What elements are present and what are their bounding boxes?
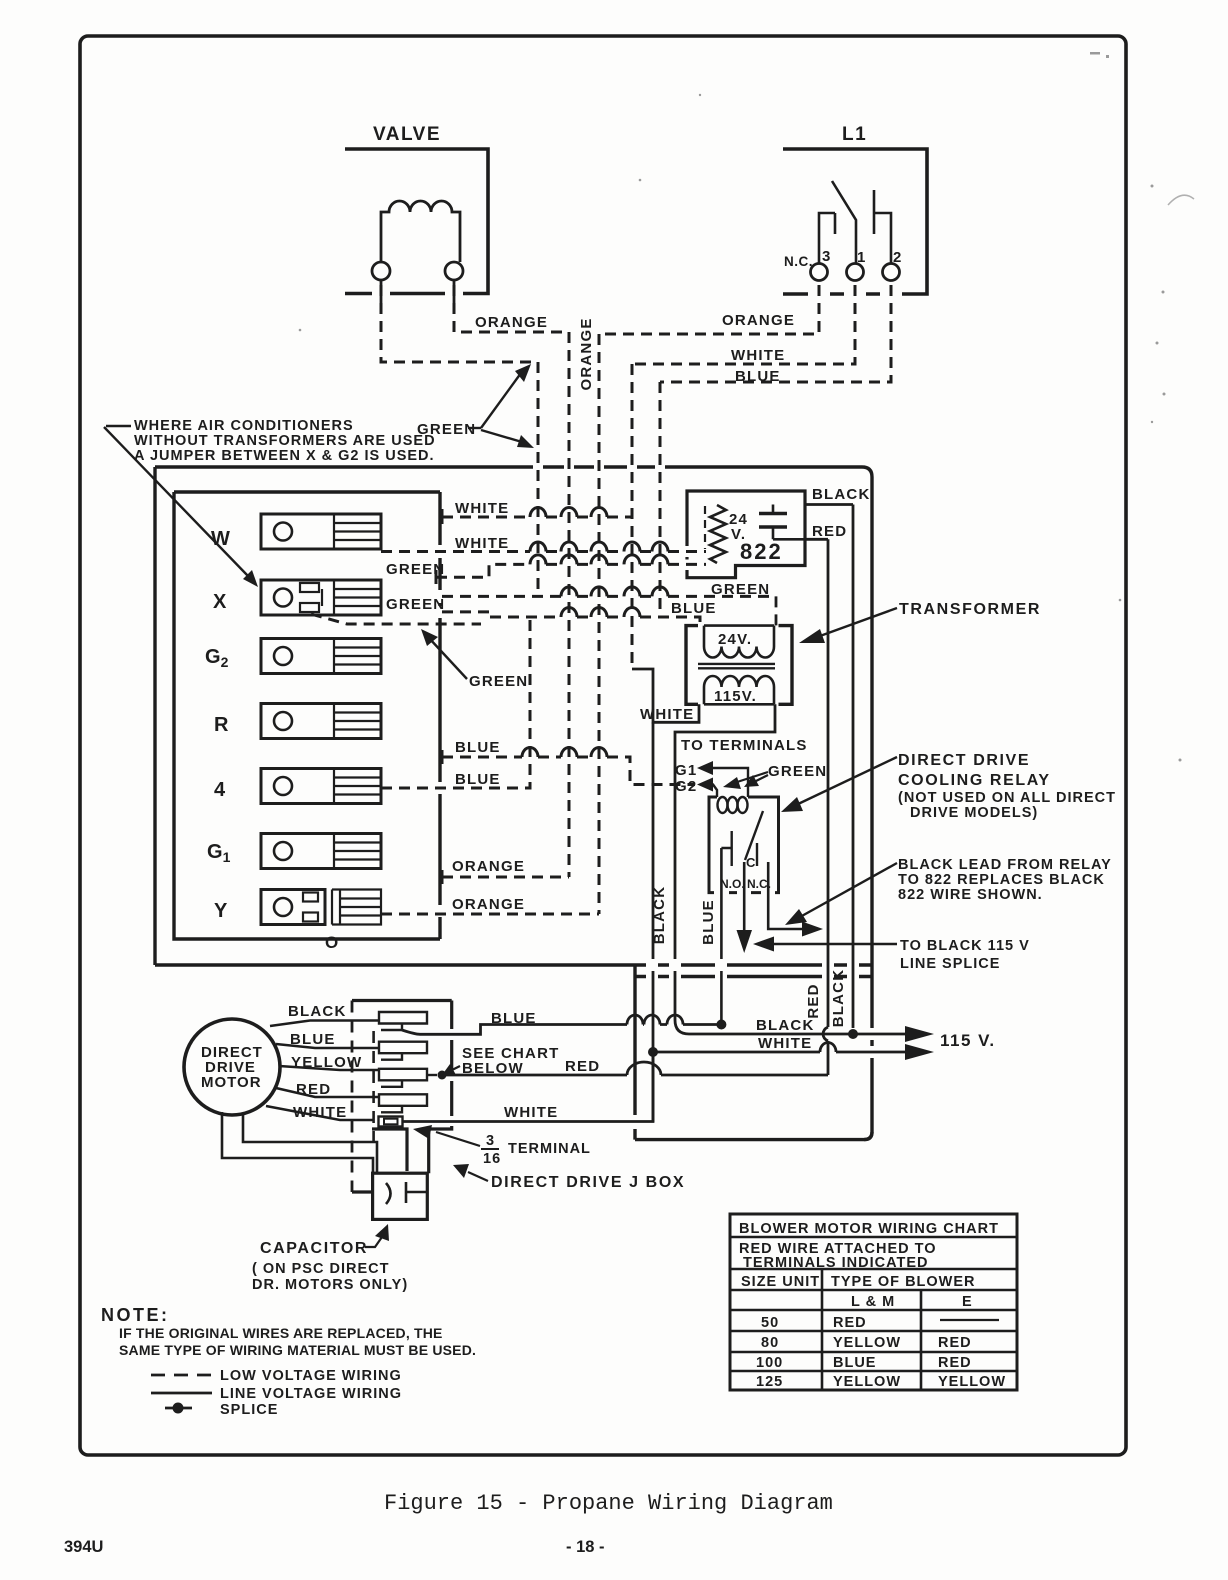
wire red motor line (446, 1074, 828, 1077)
table dash in E column row 50 (940, 1319, 999, 1321)
svg-text:G2: G2 (205, 646, 229, 670)
822 capacitor frame (773, 538, 805, 541)
wire valve right orange down (454, 285, 569, 332)
svg-text:BLACK LEAD FROM RELAY: BLACK LEAD FROM RELAY (898, 857, 1112, 873)
leader j box (468, 1172, 488, 1181)
wire orange vertical v1 (568, 332, 571, 877)
wire blue row1 (442, 757, 695, 785)
transformer green drop (775, 596, 778, 625)
hops X lower row (561, 608, 640, 617)
label DIRECT DRIVE COOLING RELAY (898, 752, 1116, 821)
wire blue vertical (659, 382, 662, 617)
jbox bottom stub (352, 1190, 373, 1193)
motor lead red (276, 1088, 379, 1097)
G1 lead (712, 768, 748, 797)
svg-text:394U: 394U (64, 1538, 103, 1556)
L1 fixed post right (873, 190, 876, 234)
valve coil L1 winding (381, 201, 460, 262)
jbox terminal 3 (379, 1069, 427, 1087)
legend low voltage sample (151, 1374, 212, 1377)
822 capacitor plates (759, 514, 787, 528)
svg-text:BLUE: BLUE (833, 1355, 876, 1371)
leader cooling relay (796, 757, 897, 805)
leader capacitor (365, 1237, 382, 1247)
svg-text:WHITE: WHITE (731, 347, 785, 364)
relay C lead down to arrow (743, 862, 746, 930)
wire blue from jbox (402, 1025, 721, 1035)
822 coil zigzag (710, 505, 726, 563)
terminal G2 (261, 639, 381, 674)
terminal G1 (261, 834, 381, 869)
svg-text:WHITE: WHITE (504, 1104, 558, 1121)
relay NC lead right arrow (768, 862, 806, 929)
svg-text:WHITE: WHITE (455, 500, 509, 517)
leader see chart (450, 1066, 460, 1071)
svg-text:NOTE:: NOTE: (101, 1305, 170, 1325)
table column lines (822, 1269, 921, 1390)
wire blue row2 (381, 617, 530, 788)
transformer left bracket (686, 626, 698, 705)
wire orange row2 (381, 913, 599, 916)
svg-text:ORANGE: ORANGE (722, 312, 795, 329)
svg-text:(NOT USED ON ALL DIRECT: (NOT USED ON ALL DIRECT (898, 790, 1116, 806)
svg-text:ORANGE: ORANGE (578, 317, 595, 390)
L1 switch blade (832, 181, 856, 263)
valve box (345, 149, 488, 294)
svg-text:822 WIRE SHOWN.: 822 WIRE SHOWN. (898, 887, 1043, 903)
svg-text:TERMINALS INDICATED: TERMINALS INDICATED (743, 1255, 928, 1271)
wire X lower row jog (442, 612, 700, 626)
svg-text:DRIVE MODELS): DRIVE MODELS) (910, 805, 1038, 821)
svg-text:115V.: 115V. (714, 688, 757, 705)
wire valve left green down (381, 285, 538, 362)
leader arrow to upper green corner (481, 373, 521, 428)
splice white (648, 1047, 658, 1057)
svg-text:BLUE: BLUE (700, 899, 717, 945)
svg-text:( ON PSC DIRECT: ( ON PSC DIRECT (252, 1261, 389, 1277)
svg-text:BELOW: BELOW (462, 1060, 524, 1077)
svg-text:N.O.: N.O. (720, 877, 745, 891)
jbox left edge dashed (351, 1001, 354, 1193)
transformer 115V winding (704, 676, 774, 704)
svg-text:TO 822 REPLACES BLACK: TO 822 REPLACES BLACK (898, 872, 1105, 888)
svg-text:COOLING RELAY: COOLING RELAY (898, 772, 1051, 789)
wire white row1 tick (441, 509, 444, 524)
svg-text:VALVE: VALVE (373, 124, 441, 145)
svg-text:125: 125 (756, 1374, 783, 1390)
white arrow 115V (905, 1044, 934, 1060)
svg-text:WHITE: WHITE (640, 706, 694, 723)
svg-text:16: 16 (483, 1151, 501, 1167)
label SEE CHART BELOW (462, 1045, 559, 1077)
L1 box (783, 149, 927, 294)
svg-text:24V.: 24V. (718, 631, 752, 648)
822 coil dashed armature (704, 506, 706, 549)
valve terminal circle right (445, 262, 463, 280)
wire green row1 with jog (436, 564, 706, 577)
svg-text:C: C (746, 855, 756, 870)
svg-text:WITHOUT TRANSFORMERS ARE USED: WITHOUT TRANSFORMERS ARE USED (134, 433, 436, 449)
terminal X (261, 580, 381, 615)
hops green row1 (530, 555, 668, 565)
motor label (201, 1044, 263, 1091)
motor lead yellow (279, 1066, 379, 1070)
svg-text:E: E (962, 1294, 973, 1310)
svg-text:TO TERMINALS: TO TERMINALS (681, 737, 808, 754)
table outer (730, 1214, 1017, 1390)
black arrow 115V (905, 1026, 934, 1042)
hop red over black line (823, 1027, 828, 1041)
svg-text:TERMINAL: TERMINAL (508, 1141, 591, 1157)
wire white to transformer (632, 669, 699, 722)
svg-text:Figure 15 - Propane Wiring Dia: Figure 15 - Propane Wiring Diagram (384, 1491, 833, 1516)
svg-text:RED: RED (296, 1081, 331, 1098)
L1 terminal 2 riser (874, 213, 891, 263)
wire white row1 (442, 516, 632, 519)
svg-text:BLACK: BLACK (756, 1017, 815, 1034)
svg-text:SAME TYPE OF WIRING MATERIAL M: SAME TYPE OF WIRING MATERIAL MUST BE USE… (119, 1342, 476, 1358)
svg-text:Y: Y (214, 900, 228, 922)
wire blue row1 tick (441, 750, 444, 764)
transformer 24V winding (704, 626, 774, 658)
svg-text:RED: RED (938, 1335, 972, 1351)
svg-text:BLACK: BLACK (288, 1003, 347, 1020)
svg-text:G1: G1 (675, 762, 697, 779)
svg-text:RED: RED (812, 523, 847, 540)
see chart splice dot (438, 1071, 447, 1080)
terminal Y (261, 890, 381, 925)
label 3/16 TERMINAL (483, 1133, 591, 1167)
wire L1 terminal2 blue (660, 285, 891, 382)
svg-text:80: 80 (761, 1335, 779, 1351)
wire L1 terminal1 white (632, 285, 855, 364)
svg-text:GREEN: GREEN (386, 561, 445, 578)
svg-text:BLUE: BLUE (671, 600, 717, 617)
label ON PSC DIRECT (252, 1261, 408, 1293)
motor lead blue (276, 1044, 378, 1048)
terminal R (261, 704, 381, 739)
relay box (709, 797, 779, 893)
legend line voltage sample (151, 1392, 212, 1395)
hop red over white vert (627, 1062, 661, 1075)
valve stem left (380, 280, 383, 305)
capacitor box (373, 1173, 428, 1219)
leader green pointer (429, 638, 467, 679)
svg-text:GREEN: GREEN (386, 596, 445, 613)
leader transformer (820, 608, 897, 636)
wire white row2 (381, 550, 706, 553)
svg-text:W: W (211, 528, 230, 550)
wire orange vertical v2 (598, 334, 601, 914)
svg-text:1: 1 (857, 249, 867, 266)
legend splice sample (165, 1407, 192, 1410)
svg-text:MOTOR: MOTOR (201, 1074, 262, 1091)
svg-text:WHERE AIR CONDITIONERS: WHERE AIR CONDITIONERS (134, 418, 354, 434)
L1 terminal 2 circle (883, 264, 900, 281)
svg-text:BLUE: BLUE (290, 1031, 336, 1048)
jbox terminal 1 (379, 1012, 427, 1030)
wire orange row1 tick (441, 870, 444, 884)
box A top edge (155, 467, 872, 477)
splice blue-relay (716, 1020, 726, 1030)
wire X bottom diagonal green (311, 614, 481, 624)
leader dash after GREEN (468, 427, 481, 429)
svg-text:ORANGE: ORANGE (452, 858, 525, 875)
wire L1 terminal3 orange (599, 285, 819, 334)
svg-text:3: 3 (822, 248, 832, 265)
wire green row1 tick (435, 570, 438, 584)
jbox top edge (352, 999, 452, 1002)
822 capacitor stems (772, 505, 775, 540)
svg-text:RED: RED (565, 1058, 600, 1075)
wire white 115V line (653, 1051, 905, 1054)
svg-text:BLUE: BLUE (455, 771, 501, 788)
svg-text:BLACK: BLACK (812, 486, 871, 503)
svg-text:BLACK: BLACK (651, 886, 668, 945)
svg-text:X: X (213, 591, 227, 613)
leader arrow to lower green wire (481, 430, 522, 442)
valve terminal circle left (372, 262, 390, 280)
leader dash before WHERE (106, 425, 131, 427)
capacitor plates (386, 1182, 427, 1204)
leader 3/16 terminal (436, 1132, 480, 1146)
box A bottom edge (155, 963, 872, 966)
svg-text:- 18 -: - 18 - (566, 1538, 605, 1556)
svg-text:CAPACITOR: CAPACITOR (260, 1240, 368, 1257)
motor circle (184, 1019, 280, 1115)
svg-text:BLUE: BLUE (491, 1010, 537, 1027)
svg-text:RED: RED (833, 1315, 867, 1331)
svg-text:L1: L1 (842, 124, 867, 145)
hops blue wire (627, 1015, 683, 1024)
svg-text:GREEN: GREEN (768, 763, 827, 780)
lower box top edge (635, 975, 872, 978)
svg-text:BLACK: BLACK (830, 969, 847, 1028)
leader black lead (800, 863, 897, 917)
jbox inner dashed (372, 1031, 375, 1151)
svg-text:LINE VOLTAGE WIRING: LINE VOLTAGE WIRING (220, 1386, 402, 1402)
svg-text:ORANGE: ORANGE (452, 896, 525, 913)
relay NO lead blue down (721, 848, 731, 1025)
box A right edge (864, 477, 872, 1140)
label BLACK LEAD FROM RELAY (898, 857, 1112, 903)
svg-text:IF THE ORIGINAL WIRES ARE REPL: IF THE ORIGINAL WIRES ARE REPLACED, THE (119, 1325, 443, 1341)
green leaders to coil (734, 772, 768, 783)
motor bottom lead B (243, 1113, 377, 1173)
wire black from 822 (805, 505, 853, 1029)
svg-text:WHITE: WHITE (758, 1035, 812, 1052)
svg-text:2: 2 (893, 249, 903, 266)
wire red from 822 (805, 539, 828, 1075)
svg-text:L & M: L & M (851, 1294, 895, 1310)
svg-text:TRANSFORMER: TRANSFORMER (899, 601, 1041, 618)
wire green row2 to transformer (442, 595, 776, 598)
transformer right bracket (779, 626, 793, 705)
svg-text:50: 50 (761, 1315, 779, 1331)
jbox right edge (372, 1001, 452, 1174)
transformer core (698, 664, 775, 668)
svg-text:BLOWER MOTOR WIRING CHART: BLOWER MOTOR WIRING CHART (739, 1221, 999, 1237)
svg-text:3: 3 (486, 1133, 495, 1149)
svg-text:LINE SPLICE: LINE SPLICE (900, 956, 1000, 972)
terminal W (261, 514, 381, 549)
jbox terminal 5 (379, 1117, 403, 1127)
L1 terminal 3 riser (819, 213, 835, 263)
svg-text:G1: G1 (207, 841, 231, 865)
hops blue row1 (522, 748, 607, 758)
fraction bar (481, 1148, 499, 1150)
svg-text:N.C.: N.C. (784, 254, 813, 269)
822 outline (687, 491, 805, 578)
L1 terminal 3 circle (811, 264, 828, 281)
wire green vertical from valve (537, 362, 540, 596)
svg-text:RED: RED (938, 1355, 972, 1371)
svg-text:DR. MOTORS ONLY): DR. MOTORS ONLY) (252, 1277, 408, 1293)
note WHERE AIR CONDITIONERS (134, 418, 436, 464)
leader line splice (770, 943, 897, 945)
wire black from transformer (675, 704, 775, 1020)
svg-text:BLUE: BLUE (735, 368, 781, 385)
relay blade (745, 811, 763, 860)
hops white row1 (530, 508, 607, 517)
terminal strip box (174, 492, 440, 939)
scan specks (299, 52, 1194, 762)
svg-text:O: O (325, 933, 338, 952)
wire orange row1 (442, 876, 569, 879)
motor lead white (266, 1106, 374, 1120)
svg-text:WHITE: WHITE (293, 1104, 347, 1121)
jbox terminal 4 (379, 1094, 427, 1112)
hops white row2 (530, 542, 668, 552)
jbox terminal 2 (379, 1042, 427, 1060)
jbox terminal 3 arm (427, 1074, 437, 1076)
hop white over red (820, 1043, 836, 1053)
wire white solid down (652, 722, 655, 1122)
lower box bottom edge (635, 1132, 872, 1140)
svg-text:SIZE UNIT: SIZE UNIT (741, 1274, 820, 1290)
svg-text:TYPE OF BLOWER: TYPE OF BLOWER (831, 1274, 976, 1290)
terminal 4 (261, 769, 381, 804)
wire black 115V line (689, 1033, 905, 1036)
svg-text:GREEN: GREEN (711, 581, 770, 598)
svg-text:822: 822 (740, 539, 783, 564)
table row lines (730, 1237, 1017, 1371)
label TO BLACK 115 V LINE SPLICE (900, 938, 1030, 972)
motor bottom lead A (222, 1112, 373, 1173)
svg-text:G2: G2 (675, 778, 697, 795)
motor lead black (270, 1021, 379, 1027)
svg-text:115 V.: 115 V. (940, 1031, 996, 1050)
relay C post (756, 843, 758, 866)
wire white motor line (403, 1052, 654, 1122)
svg-text:R: R (214, 714, 229, 736)
svg-text:LOW VOLTAGE WIRING: LOW VOLTAGE WIRING (220, 1368, 402, 1384)
relay NO post (731, 831, 733, 866)
svg-text:BLUE: BLUE (455, 739, 501, 756)
svg-text:A JUMPER BETWEEN X & G2 IS USE: A JUMPER BETWEEN X & G2 IS USED. (134, 448, 435, 464)
svg-text:RED: RED (805, 983, 822, 1018)
hops green row2 (561, 587, 668, 597)
long arrow to X terminal (104, 427, 248, 576)
svg-text:DIRECT DRIVE: DIRECT DRIVE (898, 752, 1030, 769)
svg-text:4: 4 (214, 779, 226, 801)
lower box left edge (633, 965, 636, 1140)
svg-text:YELLOW: YELLOW (938, 1374, 1006, 1390)
svg-text:GREEN: GREEN (469, 673, 528, 690)
svg-text:TO BLACK 115 V: TO BLACK 115 V (900, 938, 1030, 954)
wire black curve into 115V line (675, 1020, 689, 1034)
relay coil loops (718, 797, 728, 813)
svg-text:ORANGE: ORANGE (475, 314, 548, 331)
splice black (848, 1029, 858, 1039)
L1 terminal 1 circle (847, 264, 864, 281)
svg-text:YELLOW: YELLOW (833, 1374, 901, 1390)
svg-text:100: 100 (756, 1355, 783, 1371)
wire white vertical (631, 364, 634, 669)
page border frame (80, 36, 1126, 1455)
svg-text:WHITE: WHITE (455, 535, 509, 552)
valve stem right (453, 280, 456, 305)
G2 lead (712, 785, 717, 798)
box A left edge (153, 467, 156, 965)
svg-text:DIRECT DRIVE J BOX: DIRECT DRIVE J BOX (491, 1174, 685, 1191)
svg-text:SPLICE: SPLICE (220, 1402, 278, 1418)
svg-text:YELLOW: YELLOW (833, 1335, 901, 1351)
